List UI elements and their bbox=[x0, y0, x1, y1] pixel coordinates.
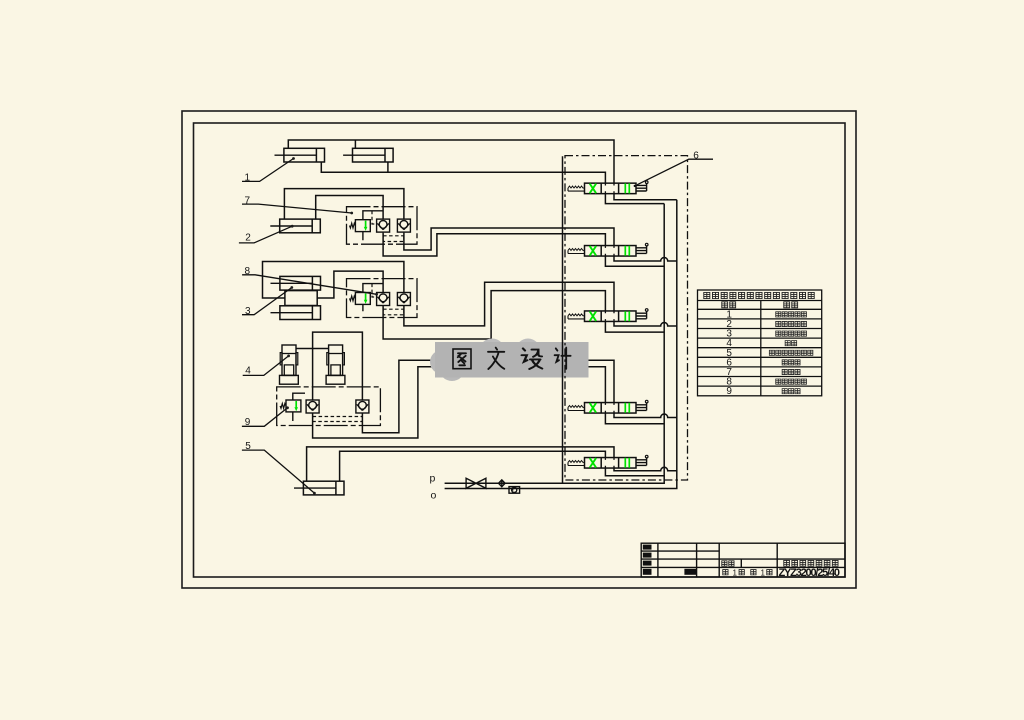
wire valve4 bottom ports bbox=[605, 413, 664, 424]
svg-text:ZYZ3200/25/40: ZYZ3200/25/40 bbox=[779, 567, 841, 579]
svg-text:p: p bbox=[430, 473, 436, 485]
manifold enclosure dash-dot bbox=[565, 156, 688, 480]
cylinder item1 right bbox=[343, 148, 393, 162]
row8 液控单向阀 bbox=[776, 379, 781, 384]
wire item3 envelope to group8 checkB bbox=[263, 262, 404, 299]
svg-text:5: 5 bbox=[245, 441, 251, 452]
valve group 8 box bbox=[347, 279, 418, 318]
shutoff valve bowtie bbox=[466, 478, 486, 488]
svg-text:o: o bbox=[431, 490, 437, 502]
char 文 bbox=[488, 348, 504, 369]
svg-text:6: 6 bbox=[693, 150, 699, 161]
relief valve group7 bbox=[350, 220, 371, 232]
check valve group7 B bbox=[397, 219, 410, 232]
valve1 lever leader to label 6 bbox=[634, 185, 636, 187]
table bbox=[698, 290, 822, 396]
svg-text:2: 2 bbox=[245, 233, 251, 244]
液压系统原理图 bbox=[784, 560, 790, 566]
directional valve 2 bbox=[568, 243, 648, 256]
wire cyl bottoms to valve1 bbox=[321, 162, 605, 183]
wire valve2 bottom ports bbox=[605, 256, 664, 266]
wire valve1 bottom ports bbox=[605, 194, 664, 204]
pilot dashes group8 bbox=[383, 308, 404, 315]
svg-text:7: 7 bbox=[245, 195, 251, 206]
P supply line symbols bbox=[466, 478, 519, 493]
svg-text:3: 3 bbox=[245, 306, 251, 317]
cylinder item2 bbox=[270, 219, 320, 233]
inner drawing frame bbox=[194, 123, 846, 577]
prop column item4 left bbox=[280, 345, 299, 384]
row2 平衡千斤顶 bbox=[776, 321, 781, 326]
wire group8 outputs to valve3 bbox=[383, 291, 605, 339]
cylinder item3 lower bbox=[271, 306, 321, 320]
row4 立柱 bbox=[785, 341, 790, 346]
relief valve group9 bbox=[280, 400, 301, 412]
wire cylinder2 to group7 checks bbox=[284, 189, 404, 220]
char 计 bbox=[555, 348, 571, 369]
prop column item4 right bbox=[326, 345, 345, 384]
wire group7 outputs to valve2 bbox=[383, 233, 605, 256]
diamond bbox=[499, 480, 506, 487]
check valve group9 B bbox=[356, 400, 369, 413]
wire return bus to O bbox=[445, 200, 677, 489]
item3 tandem mid box bbox=[285, 291, 317, 306]
svg-text:8: 8 bbox=[245, 266, 251, 277]
svg-text:1: 1 bbox=[761, 568, 766, 577]
directional valve 5 bbox=[568, 455, 648, 468]
check valve group8 B bbox=[397, 293, 410, 306]
svg-text:1: 1 bbox=[245, 173, 251, 184]
directional valve 3 bbox=[568, 309, 648, 322]
svg-text:9: 9 bbox=[726, 386, 732, 397]
row5 底座侧推千斤顶 bbox=[769, 350, 774, 355]
row7 双向锁 bbox=[782, 369, 787, 374]
check valve group8 A bbox=[377, 293, 390, 306]
svg-text:1: 1 bbox=[733, 568, 738, 577]
valve group 9 box bbox=[277, 387, 381, 426]
wire group9 outputs to valve4 bbox=[313, 367, 606, 438]
wire item4 bridge to group9 checks bbox=[296, 348, 329, 350]
leader 1 bbox=[239, 159, 377, 494]
table column headers 序号 名称 bbox=[722, 302, 798, 308]
cylinder item5 bbox=[294, 481, 344, 495]
char 设 bbox=[522, 348, 542, 369]
check valve group9 A bbox=[306, 400, 319, 413]
table header title blobs: 手动控制阀组各口控制动作表 bbox=[704, 292, 814, 298]
共 1 张 第 1 张 bbox=[723, 570, 728, 575]
watermark bbox=[430, 339, 589, 382]
valve group 7 box bbox=[347, 207, 418, 245]
svg-text:4: 4 bbox=[245, 366, 251, 377]
wire item3 cap to group8 checkA bbox=[317, 271, 383, 298]
table row names bbox=[769, 312, 813, 394]
比例 bbox=[722, 561, 727, 566]
wire valve3 bottom ports bbox=[605, 322, 664, 333]
outer drawing frame bbox=[182, 111, 856, 588]
row1 侧推千斤顶 bbox=[776, 312, 781, 317]
wire solid line along enclosure left edge bbox=[562, 156, 564, 483]
wire valve5 bottom ports bbox=[605, 468, 664, 476]
row9 安全阀 bbox=[782, 389, 787, 394]
row3 护帮千斤顶 bbox=[776, 331, 781, 336]
gauge box on O line bbox=[509, 487, 520, 494]
title block bbox=[641, 543, 845, 577]
directional valve 1 bbox=[568, 181, 648, 194]
check valve group7 A bbox=[377, 219, 390, 232]
char 图 bbox=[453, 349, 471, 369]
row6 操纵阀 bbox=[782, 360, 787, 365]
wire cyl tops to valve1 bbox=[288, 140, 614, 183]
pilot dashes group7 bbox=[383, 234, 404, 242]
watermark characters 图 文 设 计 bbox=[453, 348, 571, 369]
wire item5 to valve5 bbox=[307, 447, 614, 481]
pilot dashes group9 bbox=[313, 415, 363, 421]
cylinder item3 upper bbox=[271, 276, 321, 290]
svg-text:9: 9 bbox=[245, 417, 251, 428]
wire pressure bus to P bbox=[445, 204, 665, 484]
directional valve 4 bbox=[568, 400, 648, 413]
cylinder item1 left bbox=[275, 148, 325, 162]
relief valve group8 bbox=[350, 293, 371, 305]
